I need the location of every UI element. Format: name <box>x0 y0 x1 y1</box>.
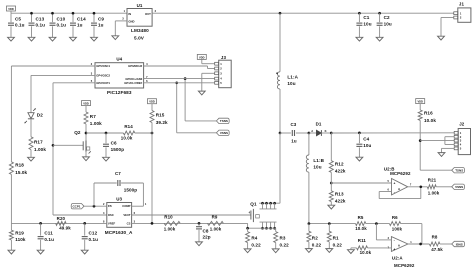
svg-text:Q1: Q1 <box>250 201 257 206</box>
svg-text:MCP6292: MCP6292 <box>390 171 411 176</box>
ground (C8) <box>196 242 203 246</box>
svg-text:VSNS: VSNS <box>455 185 463 189</box>
ground (R2) <box>306 249 313 253</box>
svg-text:+: + <box>393 247 395 251</box>
capacitor C7 1500p (COMP loop) <box>94 171 143 206</box>
svg-text:FB: FB <box>108 204 112 208</box>
ground (J3) <box>198 91 205 95</box>
svg-text:R7: R7 <box>90 114 96 119</box>
svg-text:C13: C13 <box>36 17 45 22</box>
power symbol VDD (R16) <box>416 99 425 110</box>
svg-text:VDD: VDD <box>417 99 423 103</box>
svg-text:10.0k: 10.0k <box>121 136 133 141</box>
wire R15 node down to CS line <box>151 123 153 224</box>
ground (U1) <box>112 36 119 40</box>
ground (Q2) <box>83 157 90 161</box>
wire R21 to VSNS <box>436 186 452 188</box>
svg-text:R18: R18 <box>15 163 24 168</box>
wire R8 to ISNS <box>440 243 452 245</box>
wire output line to J2 pin1 <box>331 132 454 134</box>
svg-text:COMP: COMP <box>122 204 130 208</box>
svg-text:LM3480: LM3480 <box>131 28 149 33</box>
ground (R13) <box>328 205 335 209</box>
svg-text:+: + <box>393 181 395 185</box>
wire pin2 net down to R18 <box>10 66 12 162</box>
svg-text:0.1u: 0.1u <box>44 237 54 242</box>
svg-text:C7: C7 <box>115 171 121 176</box>
wire J2 pin5 to ground <box>442 148 455 152</box>
svg-text:MCP1630_A: MCP1630_A <box>105 230 133 235</box>
wire R6 feedback to output <box>401 224 422 244</box>
svg-text:U3: U3 <box>116 197 122 202</box>
ground (C11) <box>37 250 44 254</box>
resistor R4 0.22 <box>246 228 261 249</box>
wire J1 pin2 to ground <box>441 18 454 37</box>
svg-text:VDD: VDD <box>83 101 89 105</box>
wire U1 GND to ground <box>115 21 127 36</box>
svg-text:C11: C11 <box>44 231 53 236</box>
svg-text:1500p: 1500p <box>124 188 138 193</box>
connector J3 <box>215 55 232 88</box>
node A (D1 anode) <box>308 132 311 135</box>
wire R18 to VREF bus <box>10 174 12 223</box>
svg-text:D1: D1 <box>316 122 322 127</box>
wire pin5 net to U3 OSC <box>53 214 107 216</box>
svg-text:CCP1: CCP1 <box>72 204 80 208</box>
svg-text:1500p: 1500p <box>111 147 125 152</box>
svg-text:TSNS: TSNS <box>220 119 228 123</box>
svg-text:R4: R4 <box>251 236 257 241</box>
svg-text:R3: R3 <box>280 236 286 241</box>
power symbol VDD (R7) <box>82 101 91 112</box>
resistor R5 10.0k <box>355 215 367 231</box>
capacitor C13 0.1u <box>28 12 45 41</box>
net tag VSNS <box>452 184 465 189</box>
svg-text:PIC12F683: PIC12F683 <box>107 90 132 95</box>
svg-text:VDD: VDD <box>199 55 205 59</box>
svg-text:VSNS: VSNS <box>220 131 228 135</box>
net tag TSNS <box>452 168 465 173</box>
svg-text:R8: R8 <box>432 235 438 240</box>
wire U3 VREF bus <box>11 222 106 224</box>
op-amp U2:B MCP6292 <box>384 166 412 195</box>
resistor R9 1.00k <box>208 215 224 232</box>
svg-text:39.2k: 39.2k <box>156 120 168 125</box>
wire U2:B output <box>408 185 428 188</box>
wire gate branch to Q2 <box>53 144 83 146</box>
wire pin5 down to Q2 gate / U3 OSC <box>52 83 55 215</box>
svg-text:C10: C10 <box>57 17 66 22</box>
wire GP0 to TSNS <box>184 77 217 121</box>
svg-text:K: K <box>325 129 327 133</box>
capacitor C3 1u <box>280 122 309 143</box>
capacitor C6 1500p <box>103 133 124 157</box>
wire R17 to ground <box>30 150 32 158</box>
svg-text:U4: U4 <box>116 57 122 62</box>
connector J1 <box>454 2 471 23</box>
svg-text:R12: R12 <box>335 162 344 167</box>
svg-text:100k: 100k <box>392 227 403 232</box>
svg-text:R14: R14 <box>124 124 133 129</box>
svg-text:CS: CS <box>127 222 131 226</box>
regulator U1 LM3480 5.0V <box>122 3 156 41</box>
svg-text:0.1u: 0.1u <box>36 22 46 27</box>
ground (R3) <box>272 249 279 253</box>
ground (J2) <box>438 153 445 157</box>
svg-text:Q2: Q2 <box>74 130 81 135</box>
wire R16 node to J2 pin3 <box>420 140 454 142</box>
resistor R7 1.00k <box>84 112 102 126</box>
svg-text:0.22: 0.22 <box>251 242 261 247</box>
svg-text:0.22: 0.22 <box>312 242 322 247</box>
svg-text:GP3/MCLR: GP3/MCLR <box>128 64 142 68</box>
svg-text:C3: C3 <box>290 122 296 127</box>
svg-text:GP0/CI+/AN0: GP0/CI+/AN0 <box>125 77 142 81</box>
resistor R8 47.5k <box>429 235 443 253</box>
net tag TSNS (mid) <box>216 118 229 123</box>
wire U3 CS line <box>132 222 248 225</box>
resistor R2 0.22 <box>307 224 322 249</box>
wire U4 GP4/OSC2 (pin3) left <box>31 74 95 76</box>
svg-text:ISNS: ISNS <box>456 242 463 246</box>
wire to TSNS tag <box>420 169 452 171</box>
capacitor C1 10u <box>356 12 372 41</box>
svg-text:22p: 22p <box>203 235 211 240</box>
capacitor C2 10u <box>376 12 392 41</box>
capacitor C8 22p <box>196 223 211 242</box>
capacitor C14 1u <box>70 12 86 41</box>
resistor R6 100k <box>389 215 402 232</box>
LED D2 <box>24 108 43 123</box>
svg-text:10.0k: 10.0k <box>424 118 436 123</box>
net tag VSNS (mid) <box>216 130 229 135</box>
net tag CCP1 (to U3 FB) <box>71 204 84 209</box>
svg-text:VEXT: VEXT <box>123 213 131 217</box>
svg-text:J3: J3 <box>221 55 227 60</box>
svg-text:VDD: VDD <box>149 100 155 104</box>
wire R5/R6 node to U2:A - <box>376 224 391 240</box>
svg-text:R16: R16 <box>424 110 433 115</box>
resistor R1 0.22 <box>327 224 342 249</box>
ground (R17) <box>28 157 35 161</box>
wire D2 to R17 <box>30 119 32 137</box>
svg-text:C14: C14 <box>77 17 86 22</box>
svg-text:C8: C8 <box>203 228 209 233</box>
svg-text:GP5/OSC1: GP5/OSC1 <box>96 64 110 68</box>
svg-text:1.00k: 1.00k <box>164 227 176 232</box>
wire R7 to Q2 drain <box>85 124 88 141</box>
wire LED return bus <box>308 222 356 225</box>
svg-text:R9: R9 <box>212 215 218 220</box>
capacitor C10 0.1u <box>49 12 66 41</box>
capacitor C5 0.1u <box>8 13 25 41</box>
svg-text:5.0V: 5.0V <box>134 36 145 41</box>
transistor Q2 <box>74 130 91 157</box>
wire divider tap to U2:B + <box>331 182 391 184</box>
wire tag to U3 FB <box>84 205 107 208</box>
svg-text:422k: 422k <box>335 198 346 203</box>
svg-text:R2: R2 <box>312 236 318 241</box>
resistor R10 1.00k <box>164 215 181 232</box>
transistor Q1 <box>250 201 280 229</box>
svg-text:R11: R11 <box>358 238 367 243</box>
wire Q2 drain node to R14 <box>86 132 123 135</box>
svg-text:10.0k: 10.0k <box>360 250 372 255</box>
wire L1:A to switch node <box>279 89 282 134</box>
capacitor C4 10u <box>356 132 371 158</box>
node R12/R13 tap <box>330 172 333 191</box>
svg-text:VREF: VREF <box>108 222 116 226</box>
svg-text:MCP6292: MCP6292 <box>394 263 415 268</box>
svg-text:IN: IN <box>128 12 131 16</box>
svg-text:10u: 10u <box>287 81 295 86</box>
capacitor C9 1u <box>91 12 105 41</box>
ground (J1) <box>438 36 445 40</box>
svg-text:U2:A: U2:A <box>392 256 403 261</box>
svg-text:R13: R13 <box>335 192 344 197</box>
op-amp U2:A MCP6292 <box>388 236 415 268</box>
svg-text:C2: C2 <box>384 15 390 20</box>
svg-text:422k: 422k <box>335 168 346 173</box>
wire Q1 source rail <box>246 227 275 230</box>
svg-text:GP1/CI-/VREF: GP1/CI-/VREF <box>124 81 142 85</box>
wire CS to Q1 source node <box>247 223 249 228</box>
wire U4 GP0 to J3 pin4 <box>144 78 215 80</box>
resistor R21 1.00k <box>427 177 439 195</box>
ground (R1) <box>326 249 333 253</box>
wire U2:A output <box>408 243 430 246</box>
diode D1 <box>309 122 331 136</box>
capacitor C12 0.1u <box>82 222 98 250</box>
wire U1 OUT 5V rail <box>152 12 454 14</box>
resistor R12 422k <box>329 133 346 173</box>
svg-text:R20: R20 <box>57 216 66 221</box>
svg-text:C9: C9 <box>98 17 104 22</box>
power symbol VDD (R15) <box>148 99 157 111</box>
resistor R16 10.0k <box>418 110 436 123</box>
net tag ISNS <box>452 241 465 246</box>
svg-text:OSC: OSC <box>108 213 114 217</box>
microcontroller U4 PIC12F683 <box>91 57 148 95</box>
wire GP1 to VSNS <box>175 81 216 132</box>
ground (R4) <box>244 249 251 253</box>
svg-text:R5: R5 <box>358 215 364 220</box>
svg-text:D2: D2 <box>37 113 43 118</box>
resistor R11 10.0k <box>351 238 392 255</box>
resistor R19 110k <box>9 223 26 250</box>
wire R16 down to TSNS <box>419 120 422 170</box>
ground (C12) <box>81 250 88 254</box>
svg-text:0.1u: 0.1u <box>57 22 67 27</box>
svg-text:U1: U1 <box>137 3 143 8</box>
svg-text:49.9k: 49.9k <box>59 226 71 231</box>
svg-text:C12: C12 <box>89 231 98 236</box>
inductor L1:A 10u <box>276 72 298 89</box>
svg-text:1.00k: 1.00k <box>34 147 46 152</box>
svg-text:C4: C4 <box>363 136 369 141</box>
resistor R3 0.22 <box>274 228 289 249</box>
svg-text:1u: 1u <box>77 22 83 27</box>
wire J3 pin3 to ground <box>202 73 215 91</box>
wire U4 GP2/CCP1 (pin5) left <box>53 82 95 84</box>
svg-text:110k: 110k <box>15 237 26 242</box>
svg-text:0.1u: 0.1u <box>89 237 99 242</box>
resistor R20 49.9k <box>56 216 72 231</box>
capacitor C11 0.1u <box>38 222 54 250</box>
svg-text:1u: 1u <box>291 138 297 143</box>
wire U3 VEXT to Q1 gate <box>132 211 251 215</box>
svg-text:R21: R21 <box>428 177 437 182</box>
svg-text:1.00k: 1.00k <box>90 121 102 126</box>
svg-text:10u: 10u <box>363 143 371 148</box>
svg-text:J1: J1 <box>459 2 465 7</box>
svg-text:0.1u: 0.1u <box>15 22 25 27</box>
wire R5 to R6 node <box>366 222 390 225</box>
svg-text:R6: R6 <box>392 215 398 220</box>
svg-text:R17: R17 <box>34 140 43 145</box>
resistor R18 15.0k <box>9 162 27 175</box>
svg-text:10u: 10u <box>313 165 321 170</box>
power symbol VDD (top-left) <box>7 6 16 13</box>
node D1 cathode / output <box>330 132 333 135</box>
svg-text:1.00k: 1.00k <box>428 190 440 195</box>
svg-text:GP4/OSC2: GP4/OSC2 <box>96 74 110 78</box>
wire U4 GP1 to J3 pin5 <box>144 82 215 84</box>
power symbol VDD (J3) <box>197 54 214 63</box>
connector J2 <box>454 122 470 155</box>
wire J2 pin2/pin4 tie <box>445 137 455 145</box>
svg-text:47.5k: 47.5k <box>431 247 443 252</box>
svg-text:VDD: VDD <box>8 7 14 11</box>
wire U2:B feedback loop <box>379 187 421 199</box>
svg-text:R19: R19 <box>15 231 24 236</box>
svg-text:GP2/CCP1: GP2/CCP1 <box>96 81 110 85</box>
svg-text:0.22: 0.22 <box>280 242 290 247</box>
svg-text:15.0k: 15.0k <box>15 170 27 175</box>
svg-text:10.0k: 10.0k <box>355 226 367 231</box>
svg-text:1.00k: 1.00k <box>210 227 222 232</box>
ground (R11) <box>348 248 355 254</box>
svg-text:A: A <box>311 129 313 133</box>
svg-text:L1:B: L1:B <box>313 158 324 163</box>
wire pin3 to D2 <box>30 75 32 112</box>
resistor R14 10.0k <box>121 124 135 140</box>
wire rail to L1:A <box>279 12 282 72</box>
wire U4 MCLR to J3 pin2 <box>144 66 215 69</box>
svg-text:0.22: 0.22 <box>333 242 343 247</box>
svg-text:OUT: OUT <box>145 12 151 16</box>
resistor R15 39.2k <box>150 111 168 126</box>
svg-text:R1: R1 <box>333 236 339 241</box>
ground (C6) <box>103 157 110 161</box>
svg-text:TSNS: TSNS <box>455 168 463 172</box>
PWM controller U3 MCP1630_A <box>103 197 147 235</box>
inductor L1:B 10u <box>306 133 324 224</box>
svg-text:J2: J2 <box>459 122 465 127</box>
svg-text:GND: GND <box>128 19 134 23</box>
svg-text:R15: R15 <box>156 113 165 118</box>
svg-text:10u: 10u <box>363 21 371 26</box>
ground (C4) <box>356 157 363 161</box>
svg-text:C5: C5 <box>15 17 21 22</box>
wire VDD to U1 IN (5V input rail) <box>11 12 127 14</box>
resistor R13 422k <box>329 191 346 205</box>
svg-text:10u: 10u <box>384 21 392 26</box>
svg-text:1u: 1u <box>98 22 104 27</box>
wire R14 to R15 node <box>135 132 154 135</box>
svg-text:L1:A: L1:A <box>287 74 298 79</box>
svg-text:C1: C1 <box>363 15 369 20</box>
resistor R17 1.00k <box>29 137 46 152</box>
wire U4 GP5/OSC1 (pin2) left <box>11 65 95 67</box>
svg-text:R10: R10 <box>164 215 173 220</box>
wire switch node to Q1 drain <box>279 133 281 203</box>
svg-text:C6: C6 <box>111 141 117 146</box>
ground (R19) <box>8 250 15 254</box>
